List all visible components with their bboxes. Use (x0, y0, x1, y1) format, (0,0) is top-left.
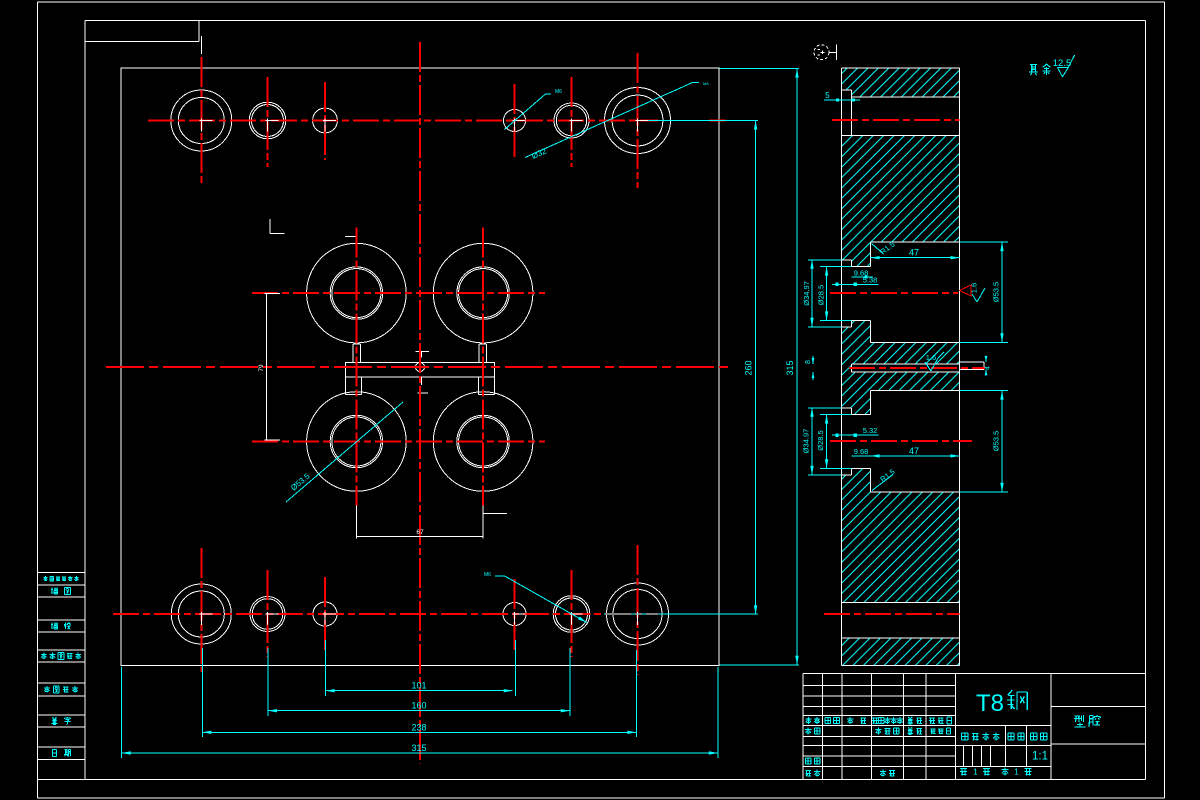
hole A2 bottom-left (171, 584, 231, 644)
svg-text:260: 260 (744, 360, 754, 375)
hole B2 bottom (250, 597, 285, 632)
bottom dimension lines (122, 640, 718, 758)
svg-text:1: 1 (973, 768, 978, 777)
svg-text:Ø53.5: Ø53.5 (992, 431, 1001, 451)
hole B1 top Ø18 double (249, 102, 286, 139)
dim 5.32 row2 (832, 434, 879, 436)
dim Ø34.97 row2 (808, 407, 842, 409)
svg-text:315: 315 (411, 743, 426, 753)
leader Ø53.5 cavity (286, 402, 403, 502)
svg-text:Ø28.5: Ø28.5 (816, 430, 825, 450)
horizontal centerlines front (106, 121, 731, 615)
svg-text:160: 160 (411, 701, 426, 711)
svg-text:5.32: 5.32 (863, 426, 878, 435)
cavity ring 2 Ø53.5 (433, 243, 533, 343)
section hatched body (842, 68, 960, 666)
dim 47 row1 (871, 257, 960, 259)
top-left fold box (85, 21, 199, 42)
part name 型腔 (1075, 715, 1080, 717)
svg-text:1.6: 1.6 (970, 283, 979, 293)
runner tab up-right (478, 344, 480, 363)
svg-text:47: 47 (909, 446, 919, 456)
hole F1 top-right Ø32 (605, 88, 671, 154)
svg-text:M6: M6 (555, 89, 562, 95)
svg-text:Ø28.5: Ø28.5 (817, 285, 826, 305)
note R1.5 row2 (872, 475, 893, 491)
title block middle+right grid (955, 673, 1145, 779)
dim 4 runner end (985, 356, 987, 362)
cavity ring 4 Ø53.5 (433, 392, 533, 492)
svg-text:M6: M6 (484, 572, 491, 578)
dim Ø34.97 row1 (808, 259, 842, 261)
svg-text:238: 238 (411, 722, 426, 732)
section outlines (842, 68, 985, 666)
hole E2 bottom Ø18 double (553, 596, 590, 633)
bar mark b (421, 377, 423, 385)
runner tab down-left (345, 377, 347, 395)
dim 79 left bracket (265, 294, 267, 441)
hole center marks (199, 119, 648, 626)
dim 67 lower (355, 506, 357, 539)
dim 5 top (824, 99, 860, 101)
hole D1 top small (504, 110, 526, 132)
right dim lines (604, 69, 799, 665)
surface text 其余 (1031, 64, 1033, 72)
roughness cone row1 (960, 285, 972, 296)
section cut mark top (200, 36, 202, 54)
svg-text:315: 315 (785, 360, 795, 375)
section cut-out voids (842, 90, 960, 638)
leader Ø32 top-right (525, 83, 693, 158)
vertical centerlines front (201, 42, 637, 764)
gate mark L (269, 219, 271, 233)
dim 9.68+47 row2 (851, 455, 959, 457)
svg-text:Ø34.97: Ø34.97 (802, 429, 811, 454)
svg-text:67: 67 (416, 529, 424, 536)
title block small labels (805, 717, 951, 777)
dim 8 runner left (812, 356, 814, 364)
svg-text:M8: M8 (703, 81, 709, 86)
dim Ø53.5 row1 (960, 241, 1009, 243)
svg-text:T8: T8 (976, 690, 1004, 717)
svg-text:1: 1 (1014, 768, 1019, 777)
dim Ø53.5 row2 (960, 390, 1009, 392)
svg-text:5: 5 (825, 91, 830, 100)
left margin column labels (41, 576, 81, 756)
projection symbol (814, 45, 829, 60)
svg-text:5.38: 5.38 (863, 276, 878, 285)
svg-text:9.68: 9.68 (854, 447, 869, 456)
svg-text:4: 4 (985, 366, 992, 370)
bar mark c (418, 392, 429, 394)
hole C2 bottom small (313, 602, 337, 626)
svg-text:79: 79 (258, 364, 265, 372)
svg-text:47: 47 (909, 248, 919, 258)
hole E1 top Ø18 double (554, 103, 589, 138)
leader M6 top (505, 94, 546, 130)
title block left grid (803, 673, 1146, 779)
sprue circle (416, 363, 425, 372)
left margin column boxes (38, 573, 85, 780)
sheet count row (960, 768, 967, 770)
hole A1 top-left Ø32 counterbored (171, 90, 232, 151)
runner tab up-left (352, 344, 354, 363)
note R1.5 row1 (872, 244, 884, 255)
svg-text:1.6: 1.6 (926, 353, 936, 362)
right dim arrows (754, 121, 757, 130)
svg-text:Ø53.5: Ø53.5 (992, 282, 1001, 302)
hole F2 bottom-right Ø32 (607, 583, 669, 645)
svg-text:8: 8 (805, 360, 812, 364)
svg-text:101: 101 (411, 681, 426, 691)
svg-text:Ø34.97: Ø34.97 (802, 281, 811, 306)
runner bar (346, 363, 495, 377)
plate outline front view (121, 68, 719, 666)
stage mark row labels (962, 732, 968, 734)
bar mark a (416, 351, 429, 353)
leader M6 bottom (495, 575, 505, 577)
bottom dimension arrows (122, 689, 718, 755)
cavity ring 3 Ø53.5 (307, 392, 407, 492)
dim 5.38 row1 (832, 283, 879, 285)
gate tick (345, 236, 357, 238)
ext step mark (484, 512, 508, 514)
hole D2 bottom small (503, 603, 526, 626)
dim 9.68 row1 (851, 276, 873, 278)
runner tab down-right (478, 377, 480, 395)
cavity ring 1 Ø53.5 (307, 243, 407, 343)
svg-text:1:1: 1:1 (1032, 751, 1048, 763)
hole C1 top small (313, 108, 338, 133)
section centerlines (824, 120, 985, 614)
